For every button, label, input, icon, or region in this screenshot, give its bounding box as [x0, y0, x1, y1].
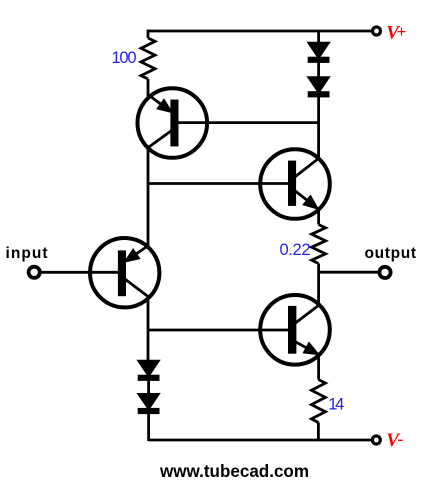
resistor R1 value 100 — [141, 38, 155, 79]
svg-text:www.tubecad.com: www.tubecad.com — [159, 461, 309, 481]
wire D4 to V- rail — [147, 412, 150, 442]
diode D4 — [139, 394, 158, 412]
label V- — [386, 430, 403, 451]
wire Q3 collector to diode D3 — [147, 296, 150, 362]
wire Q1 collector / Q3 emitter vertical — [147, 146, 150, 246]
diode D3 — [139, 361, 158, 379]
label output — [365, 245, 417, 262]
wire node to Q2 base — [148, 182, 290, 185]
wire Q2 emitter to R2 — [317, 209, 320, 225]
svg-text:100: 100 — [112, 49, 137, 67]
label R1 value 100 — [112, 49, 137, 67]
transistor Q2 (NPN, upper right) — [260, 149, 330, 219]
svg-text:0.22: 0.22 — [280, 241, 311, 259]
wire left rail upper segment — [147, 30, 150, 38]
wire Q1 base to diode string node — [176, 121, 319, 124]
wire input terminal to Q3 base — [41, 271, 120, 274]
resistor R3 value 14 — [311, 380, 325, 423]
terminal V- — [372, 436, 380, 444]
label R2 value 0.22 — [280, 241, 311, 259]
svg-text:14: 14 — [328, 396, 344, 414]
diode D1 — [309, 43, 328, 61]
wire bottom supply rail — [149, 439, 372, 442]
wire V+ rail to D1 — [317, 31, 320, 44]
wire D1 to D2 — [317, 60, 320, 79]
label input — [6, 245, 48, 262]
wire top supply rail — [148, 30, 372, 33]
wire output node to terminal — [319, 271, 378, 274]
label R3 value 14 — [328, 396, 344, 414]
transistor Q3 (PNP, input) — [90, 238, 159, 307]
transistor Q4 (NPN, lower right) — [260, 295, 330, 365]
label www.tubecad.com — [159, 461, 309, 481]
label V+ — [386, 22, 406, 43]
wire node to Q4 base — [148, 329, 290, 332]
transistor Q1 (PNP, upper left) — [138, 88, 208, 158]
svg-text:output: output — [365, 245, 417, 262]
terminal input — [29, 267, 40, 278]
svg-text:+: + — [397, 22, 407, 41]
svg-text:input: input — [6, 245, 48, 262]
wire R3 to V- rail — [317, 423, 320, 442]
diode D2 — [309, 78, 328, 96]
wire D2 to Q2 collector — [317, 95, 320, 160]
wire R2 to output node — [317, 264, 320, 306]
wire D3 to D4 — [147, 378, 150, 395]
resistor R2 value 0.22 — [312, 225, 326, 264]
terminal V+ — [373, 27, 381, 35]
wire Q4 emitter to R3 — [317, 354, 320, 380]
svg-text:-: - — [398, 430, 404, 449]
terminal output — [379, 267, 390, 278]
wire R1 to Q1 emitter — [147, 79, 150, 97]
